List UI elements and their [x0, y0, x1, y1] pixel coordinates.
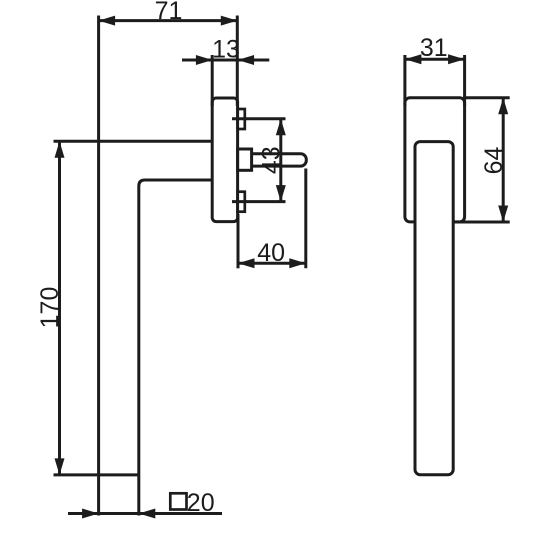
dimension 31 left extension line	[403, 55, 406, 106]
dimension 40 line with arrows	[238, 258, 306, 268]
svg-text:71: 71	[155, 0, 183, 25]
handle grip bottom edge (side view, also extension line for dim 170)	[54, 473, 139, 476]
square-section symbol of label 20	[170, 493, 186, 509]
dimension 43 line with arrows	[276, 119, 286, 202]
handle arm top edge (side view, also extension line for dim 170)	[54, 140, 213, 143]
dimension 31 right extension line	[463, 55, 466, 106]
svg-text:64: 64	[480, 147, 508, 175]
screw lug top (side view)	[238, 109, 245, 129]
handle arm bottom edge and grip right edge (side view)	[139, 180, 212, 516]
dimension 170 line with arrows	[55, 141, 65, 475]
rosette plate (side view)	[212, 98, 237, 222]
svg-text:40: 40	[257, 239, 285, 267]
spindle collar (side view)	[238, 149, 252, 170]
dimension 20 line with outside arrows	[68, 509, 222, 519]
dimension 64 bottom extension line	[453, 221, 510, 224]
rosette plate (front view)	[405, 98, 465, 222]
dimension 13 left extension line	[211, 55, 214, 106]
dimension 31 line with arrows	[405, 54, 465, 64]
svg-text:43: 43	[258, 146, 286, 174]
dimension 40 left extension line	[237, 214, 240, 268]
svg-text:20: 20	[187, 489, 215, 517]
dimension 40 right extension line	[304, 169, 307, 269]
dimension 64 line with arrows	[498, 98, 508, 222]
svg-text:170: 170	[36, 287, 64, 329]
svg-text:31: 31	[420, 34, 448, 62]
screw lug bottom (side view)	[238, 192, 245, 212]
dimension 71 right extension line	[236, 16, 239, 107]
dimension 43 top extension line	[232, 117, 286, 120]
dimension 13 line with outside arrows	[182, 55, 269, 65]
dimension 64 top extension line	[463, 96, 510, 99]
handle grip left edge (side view, also extension line for dims 71 and 20)	[97, 16, 100, 516]
dimension 71 line with arrows	[99, 16, 238, 26]
handle bar (front view)	[415, 142, 453, 475]
svg-text:13: 13	[212, 36, 240, 64]
dimension 43 bottom extension line	[232, 200, 286, 203]
spindle square shaft (side view)	[252, 154, 307, 166]
